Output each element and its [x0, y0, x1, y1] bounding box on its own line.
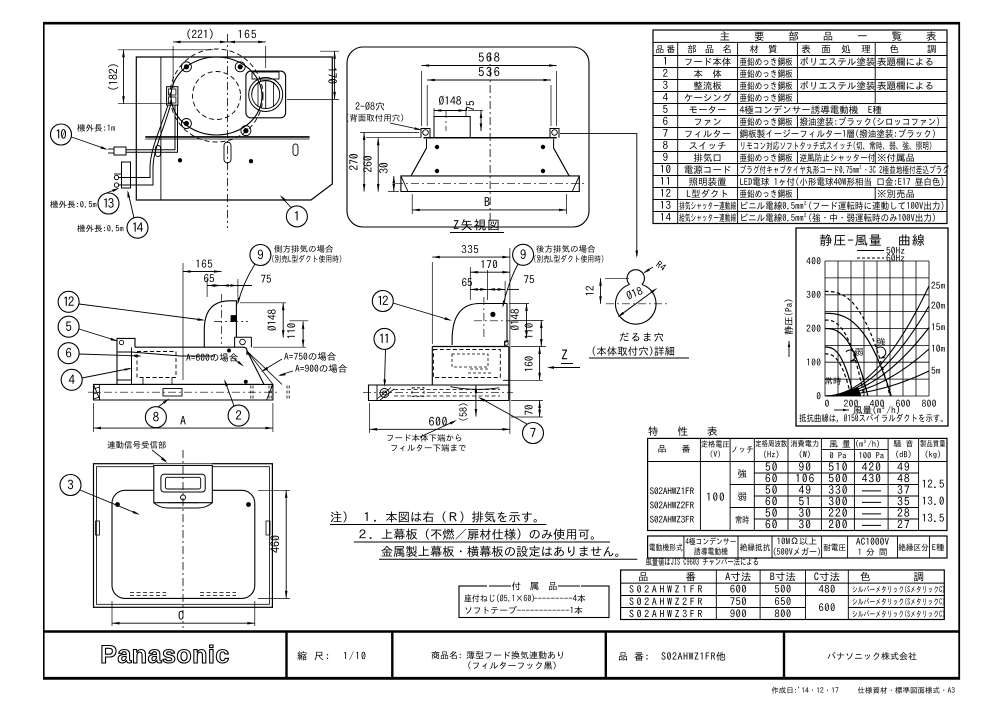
fan curve weak 50Hz	[825, 329, 868, 397]
balloon 4	[61, 369, 82, 390]
balloon 10	[51, 124, 72, 145]
label side exhaust	[274, 245, 333, 253]
Z dims 568 536	[421, 71, 423, 126]
Z dim B	[411, 194, 413, 214]
plan dim 182	[118, 49, 213, 51]
bottom view centerline	[182, 450, 184, 628]
bottom view filter panel	[112, 490, 255, 598]
side view rear body	[432, 346, 509, 348]
product name field	[431, 651, 460, 659]
label cord length 05m b	[77, 224, 123, 232]
Z view rounded frame	[347, 47, 589, 227]
plan view fan scroll	[171, 57, 262, 135]
fan curve weak 60Hz	[825, 320, 864, 396]
balloon 14	[127, 217, 148, 238]
plan view hood body outline	[136, 57, 332, 200]
label filter lower	[387, 434, 461, 442]
keyhole R4 label	[656, 261, 667, 271]
label 2-d8 holes	[355, 102, 384, 111]
Z view keyhole tabs	[421, 129, 430, 138]
side view rear lamp	[380, 389, 389, 398]
label rear exhaust	[536, 245, 595, 253]
plan dim 221 165	[172, 46, 174, 88]
balloon 2	[228, 405, 249, 426]
keyhole dim 12	[605, 277, 629, 279]
graph footnote	[799, 414, 942, 423]
bottom dim 460	[258, 489, 290, 491]
leader to keyhole detail	[560, 134, 637, 256]
balloon 6	[58, 343, 79, 364]
side view A600 interior	[137, 352, 176, 378]
notch label weak	[855, 348, 863, 356]
side rear dims d148 110	[509, 303, 529, 305]
graph legend 50Hz	[857, 250, 884, 252]
Z dims d148 75	[439, 96, 461, 106]
motor row grid	[648, 536, 947, 558]
Z view duct opening	[434, 117, 470, 138]
characteristics data	[650, 487, 694, 494]
title block frame	[43, 630, 960, 633]
Z dims 270 260 30	[360, 132, 419, 134]
graph legend 60Hz	[857, 257, 884, 259]
A750 A900 slant lines	[247, 351, 282, 384]
balloon 12 rear	[372, 291, 393, 312]
plan view centerline	[227, 34, 229, 228]
part number field	[619, 652, 725, 661]
accessories box	[459, 586, 609, 618]
side view A600 mount tab	[235, 337, 252, 347]
svg-text:Panasonic: Panasonic	[100, 641, 230, 669]
label signal receiver	[107, 441, 165, 449]
fan curve strong 60Hz	[825, 291, 890, 396]
notch label strong	[877, 338, 885, 346]
company name field	[828, 652, 917, 660]
side view rear interior	[433, 350, 500, 378]
label A750	[284, 352, 336, 360]
notch label constant	[825, 377, 841, 385]
side rear dims 335 170 65 75	[431, 262, 433, 344]
static pressure / air volume graph box	[796, 228, 948, 426]
bottom view details	[130, 592, 166, 594]
note line 1	[331, 511, 537, 522]
parts list table grid	[653, 30, 947, 224]
side view A600 duct dome	[204, 301, 236, 347]
side rear ref line	[509, 248, 511, 434]
motor row text	[649, 543, 682, 551]
graph y labels	[817, 392, 821, 399]
Z arrow symbol	[562, 349, 567, 359]
side view rear flange	[369, 385, 509, 401]
characteristics header	[658, 445, 690, 453]
parts list table title	[720, 31, 729, 40]
balloon 8	[145, 407, 166, 428]
graph grid	[824, 261, 826, 396]
balloon 12 side	[58, 291, 79, 312]
side rear dim 600	[369, 403, 371, 433]
duct resistance curves 5m-25m	[825, 286, 929, 396]
balloon 13	[98, 193, 119, 214]
side view rear duct dome	[452, 304, 507, 346]
balloon 9 side	[250, 245, 271, 266]
graph title	[820, 234, 924, 246]
label cord length 1m	[77, 124, 115, 132]
fan curve constant 60Hz	[825, 354, 851, 396]
balloon 5	[58, 316, 79, 337]
side view rear mount tab	[505, 341, 509, 347]
parts list header row	[656, 45, 675, 53]
characteristics table grid	[648, 438, 947, 530]
note line 2	[359, 529, 594, 540]
bottom dim C	[111, 601, 113, 626]
Z view caption	[454, 219, 499, 230]
Z view centerline	[489, 53, 491, 221]
ballooon 7	[523, 423, 544, 444]
note line 3	[381, 546, 618, 557]
scale field	[297, 651, 365, 660]
side view A600 body	[135, 347, 247, 355]
side rear dim 58	[475, 385, 477, 417]
label A900	[295, 364, 347, 372]
plan view exhaust outlet adapter	[246, 71, 286, 118]
side A600 dims d148 110	[240, 302, 286, 304]
label A600	[186, 353, 238, 361]
characteristics table title	[648, 426, 717, 435]
keyhole daruma hole	[627, 270, 644, 285]
power cord and plug	[126, 105, 175, 150]
dimension table text	[639, 572, 695, 581]
bottom view outer panel	[94, 464, 273, 608]
side rear dims 160 70	[511, 346, 546, 348]
keyhole dim d18	[620, 290, 654, 315]
balloon 11	[374, 328, 395, 349]
Z view hood body	[424, 137, 557, 139]
label cord length 05m a	[50, 200, 96, 208]
parts list rows text	[664, 57, 666, 65]
balloon 1	[286, 206, 307, 227]
interlock signal wires	[118, 105, 168, 178]
side A600 dim A	[93, 403, 95, 432]
graph x axis title	[834, 409, 849, 411]
balloon 9 rear	[513, 244, 534, 265]
side A600 dims 165 65 75	[182, 263, 184, 380]
plan view motor bolts	[181, 62, 191, 72]
balloon 3	[60, 475, 81, 496]
graph y axis title	[784, 300, 792, 335]
side view A600 bottom flange	[94, 384, 273, 400]
JIS note	[646, 558, 758, 566]
fan curve strong 50Hz	[825, 313, 891, 396]
dimension table grid	[621, 570, 945, 620]
bottom view signal receiver	[154, 464, 213, 503]
fan curve constant 50Hz	[825, 347, 854, 396]
keyhole caption	[620, 333, 663, 342]
plan dim 170	[320, 50, 339, 52]
graph x labels	[825, 400, 829, 407]
curve origin cluster	[832, 388, 861, 397]
duct resistance curve labels	[931, 282, 944, 289]
plan view terminal box	[167, 87, 178, 105]
date and format note	[772, 687, 955, 694]
